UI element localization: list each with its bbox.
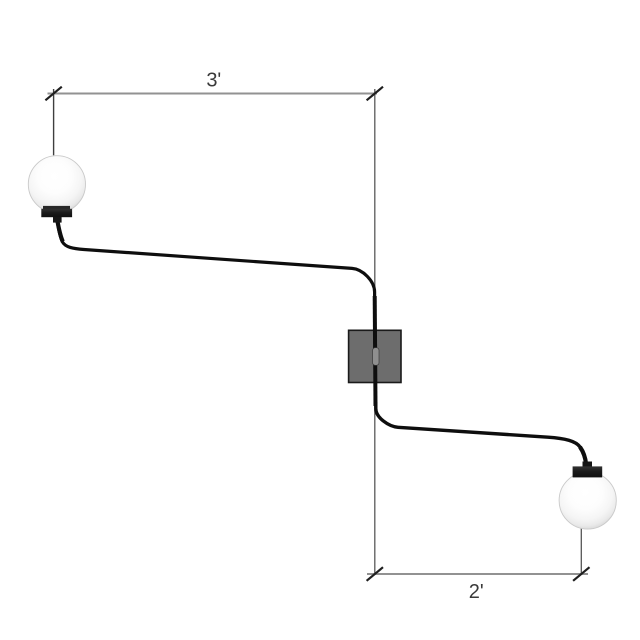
svg-text:3': 3'	[206, 69, 221, 91]
svg-text:2': 2'	[469, 581, 484, 603]
